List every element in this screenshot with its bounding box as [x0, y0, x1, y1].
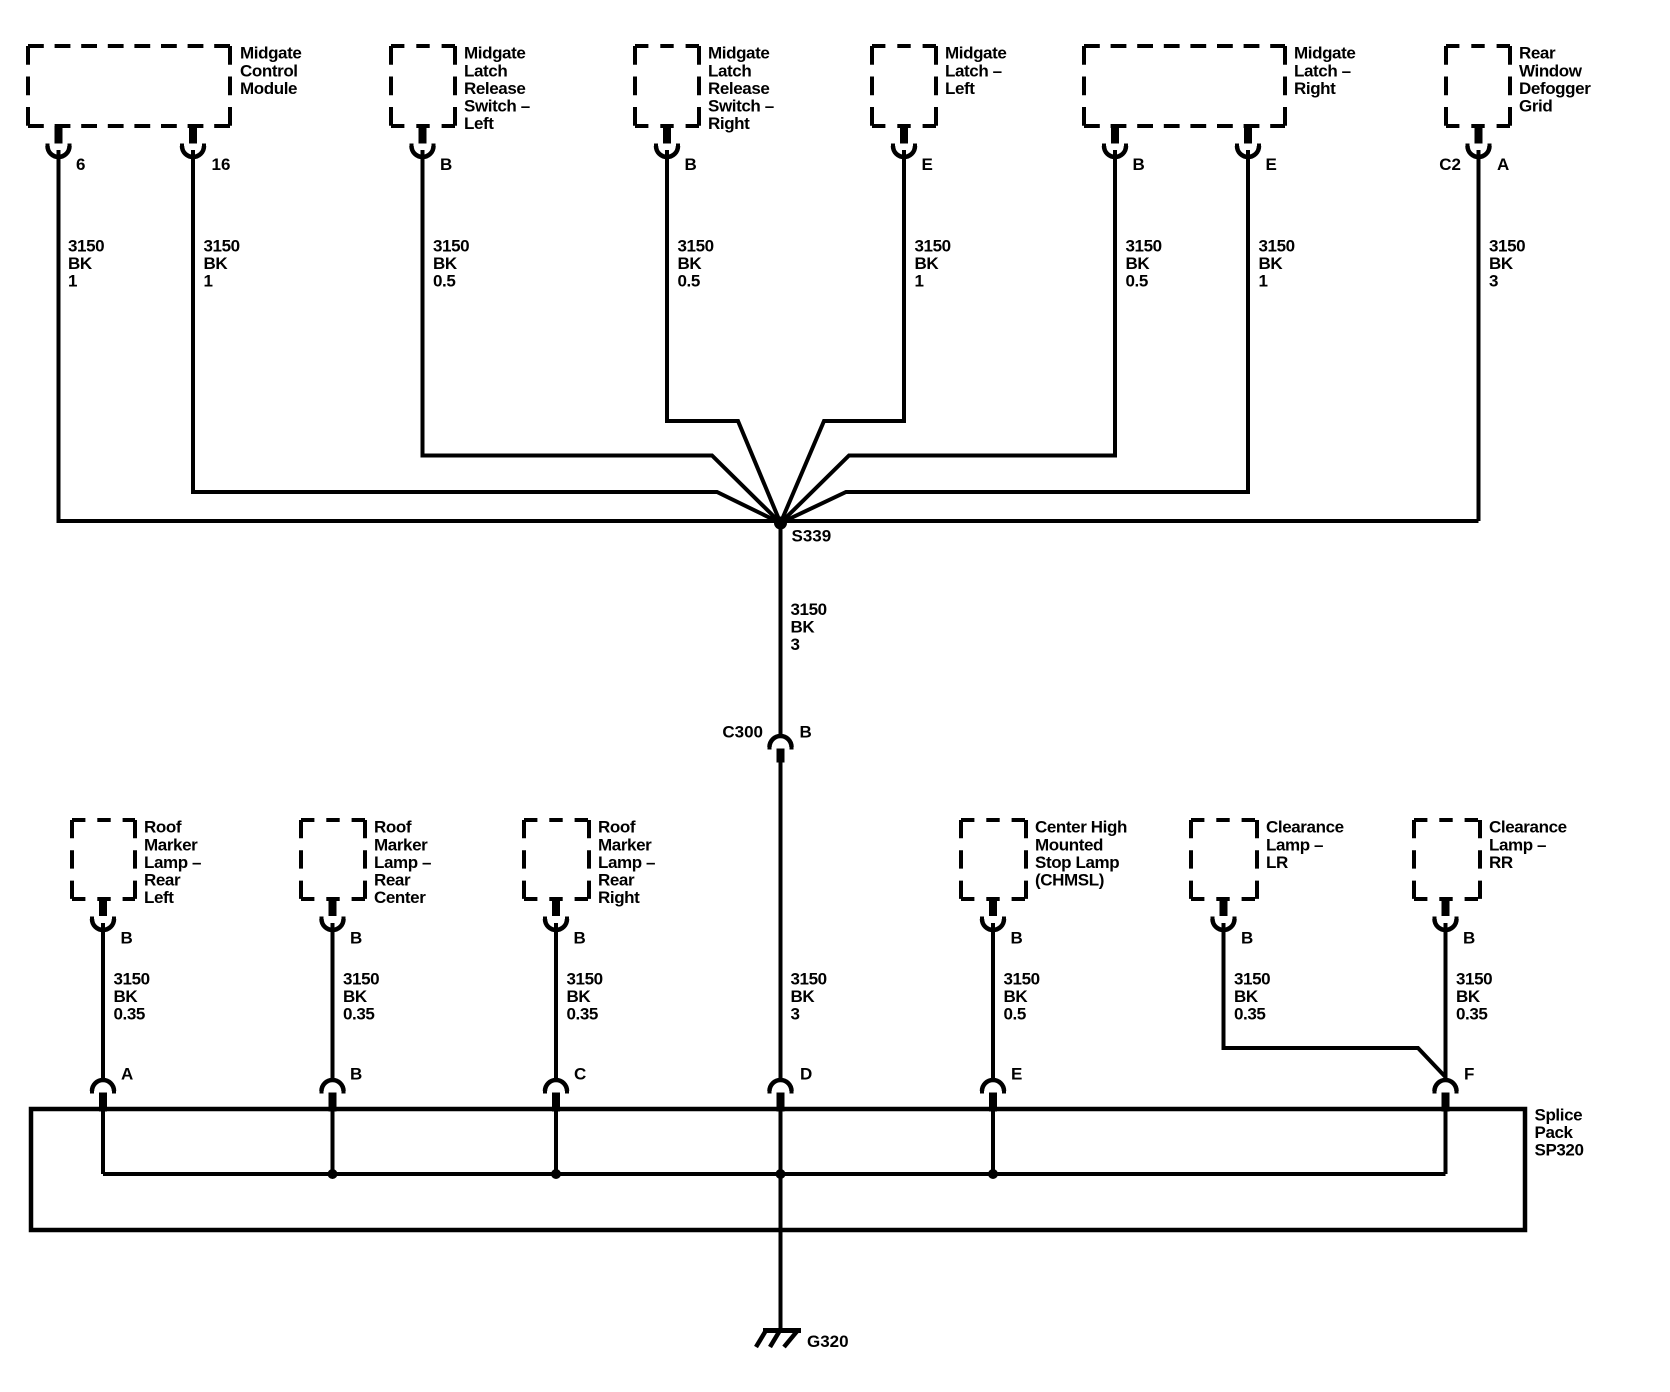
wire label 3150 BK 3 (C300 to pin D) — [791, 970, 827, 1024]
svg-text:0.5: 0.5 — [678, 272, 700, 291]
roof marker lamp rear right box — [524, 820, 589, 899]
svg-text:Marker: Marker — [374, 835, 428, 854]
svg-text:16: 16 — [212, 155, 231, 174]
svg-text:3150: 3150 — [343, 970, 379, 989]
wire label 3150 BK 0.35 (clearance RR) — [1456, 970, 1492, 1024]
svg-text:SP320: SP320 — [1535, 1141, 1584, 1160]
svg-text:3150: 3150 — [1126, 237, 1162, 256]
wire from latch left pin E to splice S339 — [781, 150, 905, 523]
midgate control module label — [240, 44, 301, 98]
bus junction at pin B — [328, 1169, 338, 1179]
roof marker lamp rear left box — [72, 820, 135, 899]
wire from pin 6 along through line to splice S339 — [59, 150, 1479, 521]
bus junction at pin D — [776, 1169, 786, 1179]
svg-text:Window: Window — [1519, 61, 1583, 80]
svg-text:3150: 3150 — [791, 970, 827, 989]
wire pin E to bus inside splice pack — [991, 1110, 995, 1174]
splice pack internal bus wire — [103, 1172, 1446, 1176]
connector pin B of center high mounted stop lamp CHMSL — [982, 899, 1023, 948]
wire from C300 down to splice pack pin D — [779, 762, 783, 1080]
wire from roof marker lamp rear center to splice pack pin B — [331, 923, 335, 1080]
wire from switch right pin B to splice S339 — [667, 150, 781, 523]
svg-text:E: E — [922, 155, 933, 174]
svg-text:BK: BK — [68, 254, 93, 273]
svg-text:C300: C300 — [722, 723, 763, 742]
ground G320 — [756, 1330, 849, 1352]
svg-text:Clearance: Clearance — [1489, 818, 1567, 837]
svg-text:1: 1 — [1259, 272, 1268, 291]
svg-text:BK: BK — [204, 254, 229, 273]
svg-text:F: F — [1464, 1065, 1474, 1084]
svg-text:BK: BK — [1234, 987, 1259, 1006]
svg-text:1: 1 — [915, 272, 924, 291]
svg-text:Lamp –: Lamp – — [598, 853, 655, 872]
svg-text:Midgate: Midgate — [464, 44, 525, 63]
svg-text:Rear: Rear — [598, 871, 635, 890]
svg-text:Center High: Center High — [1035, 818, 1127, 837]
svg-text:3: 3 — [791, 635, 800, 654]
splice S339 — [774, 517, 787, 530]
wire label 3150 BK 0.5 (latch right B) — [1126, 237, 1162, 291]
wire from roof marker lamp rear left to splice pack pin A — [101, 923, 105, 1080]
svg-text:3150: 3150 — [1489, 237, 1525, 256]
svg-text:3150: 3150 — [114, 970, 150, 989]
wire from splice S339 down to connector C300 — [779, 523, 783, 737]
wire pin A to bus inside splice pack — [101, 1110, 105, 1174]
connector pin B of roof marker lamp rear right — [545, 899, 586, 948]
svg-text:B: B — [1241, 929, 1253, 948]
midgate latch release switch left box — [391, 46, 455, 126]
svg-text:Module: Module — [240, 79, 297, 98]
svg-text:BK: BK — [678, 254, 703, 273]
svg-text:Control: Control — [240, 61, 298, 80]
connector pin B of midgate latch right — [1104, 126, 1145, 174]
clearance lamp RR label — [1489, 818, 1567, 872]
svg-text:Marker: Marker — [144, 835, 198, 854]
svg-text:BK: BK — [433, 254, 458, 273]
svg-text:Lamp –: Lamp – — [144, 853, 201, 872]
roof marker lamp rear center label — [374, 818, 431, 907]
svg-text:Pack: Pack — [1535, 1123, 1574, 1142]
svg-text:Left: Left — [464, 114, 494, 133]
splice pack connector pin F — [1435, 1065, 1475, 1112]
svg-text:(CHMSL): (CHMSL) — [1035, 871, 1104, 890]
svg-text:3150: 3150 — [567, 970, 603, 989]
wire label 3150 BK 3 (defogger) — [1489, 237, 1525, 291]
wire from latch right pin E to splice S339 — [781, 150, 1249, 523]
wire pin D through bus to ground lead G320 — [779, 1110, 783, 1330]
svg-text:E: E — [1011, 1065, 1022, 1084]
svg-text:Midgate: Midgate — [708, 44, 769, 63]
svg-text:Marker: Marker — [598, 835, 652, 854]
midgate latch left label — [945, 44, 1006, 98]
svg-text:D: D — [800, 1065, 812, 1084]
wire label 3150 BK 1 (pin 6) — [68, 237, 104, 291]
midgate control module box — [28, 46, 230, 126]
connector pin B of midgate latch release switch right — [656, 126, 697, 174]
roof marker lamp rear center box — [301, 820, 365, 899]
svg-text:Mounted: Mounted — [1035, 835, 1103, 854]
svg-text:B: B — [574, 929, 586, 948]
svg-text:Rear: Rear — [374, 871, 411, 890]
connector pin 16 of midgate control module — [182, 126, 230, 174]
svg-text:3150: 3150 — [204, 237, 240, 256]
wire from roof marker lamp rear right to splice pack pin C — [554, 923, 558, 1080]
svg-text:Roof: Roof — [374, 818, 412, 837]
svg-text:B: B — [800, 723, 812, 742]
connector pin B of roof marker lamp rear left — [92, 899, 133, 948]
clearance lamp RR box — [1414, 820, 1480, 899]
svg-text:0.5: 0.5 — [433, 272, 455, 291]
svg-text:Latch –: Latch – — [945, 61, 1002, 80]
svg-text:BK: BK — [791, 618, 816, 637]
svg-text:Latch: Latch — [708, 61, 751, 80]
connector C300 pin B — [722, 723, 811, 763]
svg-text:3150: 3150 — [915, 237, 951, 256]
rear window defogger grid label — [1519, 44, 1591, 116]
wire label 3150 BK 1 (latch left) — [915, 237, 951, 291]
svg-text:Right: Right — [708, 114, 750, 133]
splice pack connector pin E — [982, 1065, 1022, 1112]
svg-text:Rear: Rear — [144, 871, 181, 890]
svg-text:A: A — [121, 1065, 133, 1084]
wire label 3150 BK 0.35 (rear right lamp) — [567, 970, 603, 1024]
svg-text:BK: BK — [567, 987, 592, 1006]
midgate latch release switch left label — [464, 44, 530, 133]
wire pin C to bus inside splice pack — [554, 1110, 558, 1174]
midgate latch right label — [1294, 44, 1355, 98]
wire from CHMSL to splice pack pin E — [991, 923, 995, 1080]
svg-text:C2: C2 — [1439, 155, 1461, 174]
svg-text:G320: G320 — [807, 1332, 849, 1351]
wire label 3150 BK 1 (pin 16) — [204, 237, 240, 291]
svg-text:0.35: 0.35 — [567, 1005, 599, 1024]
splice pack connector pin A — [92, 1065, 133, 1112]
clearance lamp LR box — [1191, 820, 1257, 899]
svg-text:3150: 3150 — [1234, 970, 1270, 989]
wire from switch left pin B to splice S339 — [423, 150, 781, 523]
svg-text:RR: RR — [1489, 853, 1513, 872]
connector pin E of midgate latch right — [1237, 126, 1277, 174]
svg-text:Splice: Splice — [1535, 1106, 1583, 1125]
svg-text:B: B — [350, 929, 362, 948]
connector pin B of clearance lamp LR — [1213, 899, 1254, 948]
svg-text:Lamp –: Lamp – — [1489, 835, 1546, 854]
svg-text:E: E — [1266, 155, 1277, 174]
svg-text:1: 1 — [204, 272, 213, 291]
svg-text:3: 3 — [1489, 272, 1498, 291]
svg-text:Left: Left — [144, 888, 174, 907]
wire label 3150 BK 0.5 (switch left) — [433, 237, 469, 291]
svg-text:Center: Center — [374, 888, 426, 907]
midgate latch right box — [1084, 46, 1285, 126]
svg-text:0.35: 0.35 — [1456, 1005, 1488, 1024]
roof marker lamp rear left label — [144, 818, 201, 907]
svg-text:0.35: 0.35 — [114, 1005, 146, 1024]
svg-text:B: B — [1011, 929, 1023, 948]
wire pin B to bus inside splice pack — [331, 1110, 335, 1174]
svg-text:6: 6 — [76, 155, 85, 174]
svg-text:BK: BK — [1004, 987, 1029, 1006]
connector pin A of rear window defogger grid — [1439, 126, 1509, 174]
svg-text:Latch: Latch — [464, 61, 507, 80]
wire pin F to bus inside splice pack — [1444, 1110, 1448, 1174]
svg-text:B: B — [440, 155, 452, 174]
svg-text:Defogger: Defogger — [1519, 79, 1591, 98]
svg-text:Roof: Roof — [598, 818, 636, 837]
svg-text:BK: BK — [791, 987, 816, 1006]
bus junction at pin E — [988, 1169, 998, 1179]
wire from clearance lamp RR to splice pack pin F — [1444, 923, 1448, 1080]
wire label 3150 BK 0.35 (rear center lamp) — [343, 970, 379, 1024]
svg-text:A: A — [1497, 155, 1509, 174]
connector pin 6 of midgate control module — [48, 126, 86, 174]
wire label 3150 BK 1 (latch right E) — [1259, 237, 1295, 291]
wire label 3150 BK 0.5 (CHMSL) — [1004, 970, 1040, 1024]
wire label 3150 BK 0.5 (switch right) — [678, 237, 714, 291]
svg-text:0.5: 0.5 — [1126, 272, 1148, 291]
svg-text:Roof: Roof — [144, 818, 182, 837]
svg-text:Lamp –: Lamp – — [1266, 835, 1323, 854]
svg-text:Right: Right — [1294, 79, 1336, 98]
wire from clearance lamp LR joining pin F wire — [1224, 923, 1446, 1077]
clearance lamp LR label — [1266, 818, 1344, 872]
center high mounted stop lamp CHMSL label — [1035, 818, 1127, 890]
svg-text:LR: LR — [1266, 853, 1288, 872]
svg-text:B: B — [685, 155, 697, 174]
svg-text:C: C — [574, 1065, 586, 1084]
svg-text:Stop Lamp: Stop Lamp — [1035, 853, 1119, 872]
wire from defogger pin A down to through line — [1477, 150, 1481, 521]
splice pack connector pin C — [545, 1065, 586, 1112]
wire from pin 16 to splice S339 — [193, 150, 781, 523]
svg-text:Midgate: Midgate — [945, 44, 1006, 63]
svg-text:BK: BK — [1489, 254, 1514, 273]
svg-text:3150: 3150 — [1456, 970, 1492, 989]
svg-text:0.35: 0.35 — [343, 1005, 375, 1024]
bus junction at pin C — [551, 1169, 561, 1179]
svg-text:BK: BK — [1456, 987, 1481, 1006]
svg-text:0.5: 0.5 — [1004, 1005, 1026, 1024]
rear window defogger grid box — [1446, 46, 1510, 126]
svg-text:Switch –: Switch – — [464, 97, 530, 116]
svg-text:B: B — [1133, 155, 1145, 174]
center high mounted stop lamp CHMSL box — [961, 820, 1026, 899]
wire label 3150 BK 0.35 (clearance LR) — [1234, 970, 1270, 1024]
svg-text:BK: BK — [343, 987, 368, 1006]
midgate latch release switch right label — [708, 44, 774, 133]
svg-text:3150: 3150 — [68, 237, 104, 256]
svg-text:3150: 3150 — [791, 600, 827, 619]
svg-text:B: B — [350, 1065, 362, 1084]
connector pin B of roof marker lamp rear center — [322, 899, 363, 948]
svg-text:Release: Release — [708, 79, 769, 98]
svg-text:3150: 3150 — [1259, 237, 1295, 256]
svg-text:BK: BK — [114, 987, 139, 1006]
connector pin B of clearance lamp RR — [1435, 899, 1476, 948]
svg-text:Left: Left — [945, 79, 975, 98]
connector pin B of midgate latch release switch left — [412, 126, 453, 174]
svg-text:Grid: Grid — [1519, 97, 1552, 116]
splice pack connector pin B — [322, 1065, 363, 1112]
wire label 3150 BK 0.35 (rear left lamp) — [114, 970, 150, 1024]
svg-text:Clearance: Clearance — [1266, 818, 1344, 837]
svg-text:0.35: 0.35 — [1234, 1005, 1266, 1024]
svg-text:3150: 3150 — [1004, 970, 1040, 989]
svg-text:B: B — [1463, 929, 1475, 948]
svg-text:Release: Release — [464, 79, 525, 98]
midgate latch release switch right box — [635, 46, 699, 126]
wire from latch right pin B to splice S339 — [781, 150, 1116, 523]
svg-text:Lamp –: Lamp – — [374, 853, 431, 872]
svg-text:BK: BK — [1259, 254, 1284, 273]
wire label 3150 BK 3 (splice to C300) — [791, 600, 827, 654]
connector pin E of midgate latch left — [893, 126, 933, 174]
svg-text:Right: Right — [598, 888, 640, 907]
svg-text:3150: 3150 — [678, 237, 714, 256]
svg-text:Rear: Rear — [1519, 44, 1556, 63]
svg-text:Midgate: Midgate — [240, 44, 301, 63]
svg-text:Switch –: Switch – — [708, 97, 774, 116]
svg-text:1: 1 — [68, 272, 77, 291]
svg-text:B: B — [121, 929, 133, 948]
svg-text:BK: BK — [1126, 254, 1151, 273]
svg-text:Midgate: Midgate — [1294, 44, 1355, 63]
svg-text:Latch –: Latch – — [1294, 61, 1351, 80]
svg-text:3150: 3150 — [433, 237, 469, 256]
splice pack SP320 box — [31, 1109, 1525, 1230]
splice pack connector pin D — [770, 1065, 813, 1112]
roof marker lamp rear right label — [598, 818, 655, 907]
midgate latch left box — [872, 46, 936, 126]
splice pack SP320 label — [1535, 1106, 1584, 1160]
svg-text:S339: S339 — [792, 527, 832, 546]
svg-text:BK: BK — [915, 254, 940, 273]
svg-text:3: 3 — [791, 1005, 800, 1024]
